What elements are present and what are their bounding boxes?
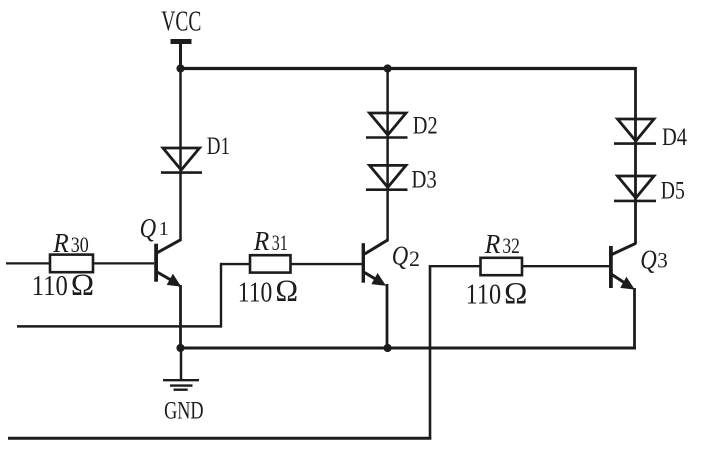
wire ground rail [179,347,636,350]
svg-text:Ω: Ω [71,267,95,302]
wire rail right corner down to D4 [634,67,637,244]
wire input 2 vertical riser [220,263,222,328]
wire R32 to Q3 base [522,265,609,267]
wire input 3 vertical riser [429,265,432,440]
node junction dot at Q1 emitter [176,344,184,352]
wire riser to R31 [221,263,251,265]
svg-text:110: 110 [238,277,272,308]
wire Q1 emitter down [179,285,182,348]
wire rail through D2 and D3 to Q2 collector [386,69,389,242]
svg-text:3: 3 [657,248,668,273]
svg-text:D3: D3 [411,167,436,194]
wire top VCC rail [179,67,636,70]
svg-text:2: 2 [409,246,420,271]
svg-text:110: 110 [466,280,502,311]
svg-text:D2: D2 [413,112,438,139]
transistor Q3 [609,243,636,289]
svg-text:32: 32 [502,233,520,258]
resistor R30 [50,255,93,273]
transistor Q1 [154,240,181,287]
wire R31 to Q2 base [291,263,362,265]
resistor R31 [250,255,291,272]
wire R30 to Q1 base [93,262,154,264]
svg-text:R: R [52,228,69,258]
svg-text:Ω: Ω [504,276,528,311]
svg-text:Q: Q [392,240,409,270]
node junction dot at D2 column [384,64,392,72]
node junction dot at VCC column [176,64,184,72]
wire input 2 bottom segment [17,325,221,328]
wire Q3 emitter down [633,288,636,348]
diode D5 [614,176,656,201]
wire to ground symbol [180,348,183,380]
svg-text:31: 31 [272,230,288,255]
wire VCC bar to top rail [179,44,182,68]
wire riser to R32 [430,265,481,267]
node junction dot at Q2 emitter [384,344,392,352]
resistor R32 [481,258,523,275]
wire rail through D1 to Q1 collector [179,69,182,242]
diode D1 [161,148,202,173]
svg-text:110: 110 [32,271,68,302]
transistor Q2 [362,240,388,286]
VCC power bar symbol [171,39,192,44]
diode D3 [366,165,408,189]
svg-text:Ω: Ω [275,273,299,308]
svg-text:GND: GND [164,397,204,424]
svg-text:D4: D4 [662,124,687,151]
svg-text:Q: Q [640,245,657,275]
wire Q2 emitter down [386,284,389,348]
wire rail corner to D4 handled above; diode D4 [614,119,656,144]
svg-text:R: R [253,226,270,256]
svg-text:VCC: VCC [161,6,201,38]
ground [163,380,199,390]
svg-text:D5: D5 [661,178,685,205]
wire input 1 left segment [6,262,50,264]
svg-text:R: R [484,229,501,259]
diode D2 [366,113,408,138]
svg-text:Q: Q [140,213,157,243]
svg-text:30: 30 [71,232,89,257]
svg-text:1: 1 [159,218,169,240]
svg-text:D1: D1 [207,133,230,160]
wire input 3 bottom segment [8,437,431,440]
